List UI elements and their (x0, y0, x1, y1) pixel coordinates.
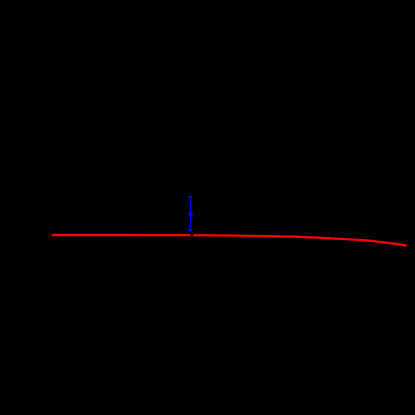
error bar top cap (188, 196, 192, 198)
data point marker (blue circle) (188, 212, 193, 217)
fit function curve (red) (52, 235, 407, 246)
data point error bar vertical line (blue) (190, 197, 192, 231)
error bar bottom cap (188, 229, 192, 231)
marker right bump (192, 213, 194, 215)
black marker notching the red curve (190, 232, 194, 236)
